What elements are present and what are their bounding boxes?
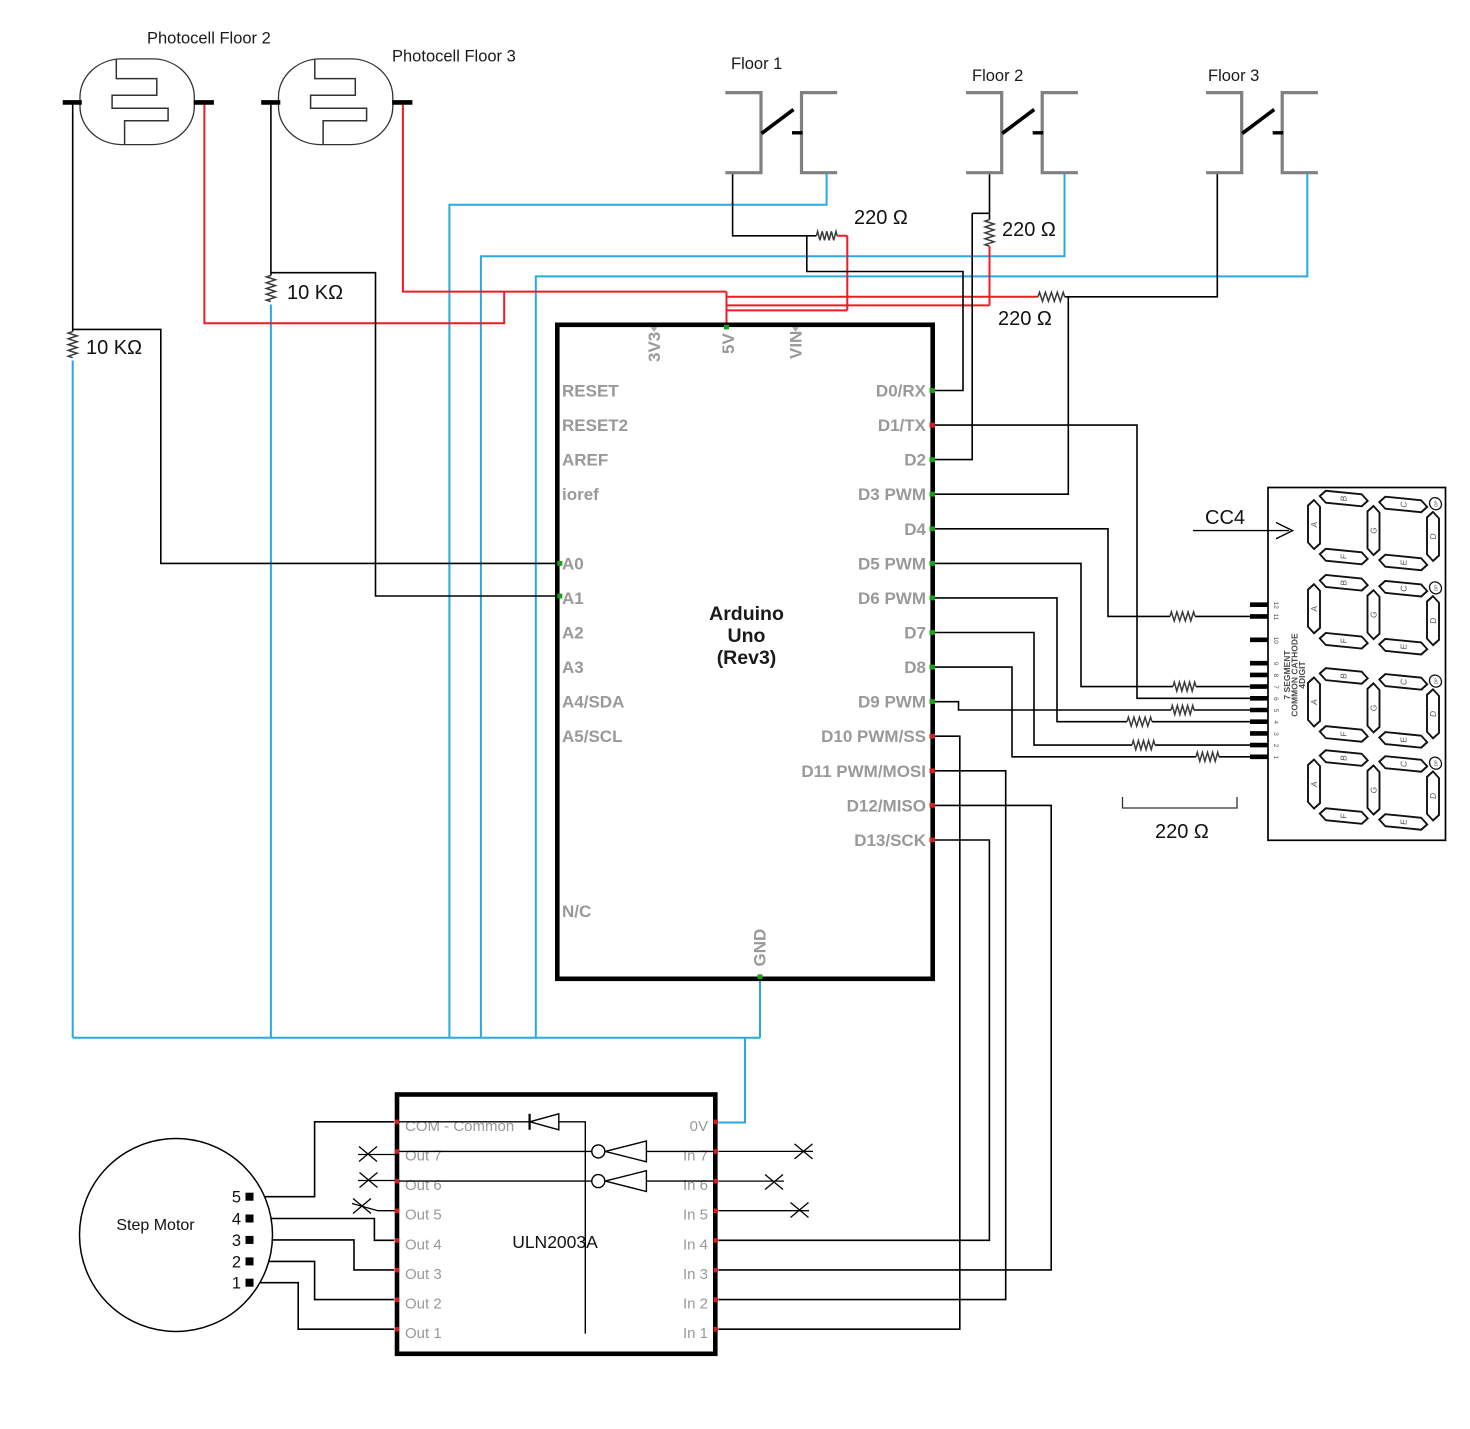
pin A2 bbox=[562, 624, 584, 643]
svg-text:(Rev3): (Rev3) bbox=[717, 647, 777, 669]
svg-text:Floor 1: Floor 1 bbox=[731, 55, 782, 73]
svg-text:Photocell Floor 2: Photocell Floor 2 bbox=[147, 30, 271, 48]
svg-text:RESET: RESET bbox=[562, 382, 619, 401]
display pin 2 stub bbox=[1250, 744, 1279, 748]
pin ioref bbox=[562, 485, 599, 504]
diode COM suppression inside ULN bbox=[399, 1114, 585, 1334]
display pin 4 stub bbox=[1250, 720, 1279, 724]
svg-text:4: 4 bbox=[1272, 720, 1279, 724]
no-connect stub Out6 bbox=[358, 1173, 395, 1188]
display pin 7 stub bbox=[1250, 685, 1279, 689]
pin D0/RX bbox=[876, 382, 935, 401]
pin A5/SCL bbox=[562, 727, 622, 746]
svg-text:4: 4 bbox=[232, 1211, 241, 1229]
svg-text:A3: A3 bbox=[562, 658, 584, 677]
wire: Arduino D7 to display pin 2 resistor bbox=[933, 633, 1250, 746]
wire: Arduino GND pin drop bbox=[759, 981, 761, 1038]
pin 0V bbox=[690, 1118, 718, 1135]
wire: Floor2 node to Arduino D2 bbox=[933, 213, 990, 459]
svg-text:CC4: CC4 bbox=[1205, 507, 1245, 529]
pin A0 bbox=[557, 554, 583, 573]
resistor 10Kohm photocell floor2 bbox=[68, 332, 77, 358]
svg-text:COM - Common: COM - Common bbox=[405, 1118, 514, 1135]
wire: photocell floor2 left terminal down to 10K bbox=[72, 105, 74, 332]
pin A1 bbox=[557, 589, 583, 608]
wire: Floor2 switch right to GND bus bbox=[481, 173, 1065, 1038]
svg-text:10 KΩ: 10 KΩ bbox=[86, 337, 142, 359]
pin D3 PWM bbox=[858, 485, 935, 504]
svg-text:220 Ω: 220 Ω bbox=[854, 207, 908, 229]
display digit 4 bbox=[1308, 744, 1442, 831]
svg-text:Uno: Uno bbox=[728, 625, 766, 647]
svg-text:220 Ω: 220 Ω bbox=[1002, 219, 1056, 241]
wire: Floor2 switch left leg to 220ohm bbox=[989, 173, 991, 220]
svg-text:RESET2: RESET2 bbox=[562, 416, 628, 435]
pin D6 PWM bbox=[858, 589, 935, 608]
svg-text:220 Ω: 220 Ω bbox=[1155, 821, 1209, 843]
pin Out 1 bbox=[395, 1325, 442, 1342]
pin D5 PWM bbox=[858, 554, 935, 573]
wire: 5V branch to Floor1 220ohm resistor bbox=[727, 236, 848, 311]
wire: Arduino D13 to ULN In4 bbox=[719, 840, 990, 1240]
pin VIN bbox=[787, 327, 806, 359]
switch "Floor 1" pushbutton bbox=[725, 55, 837, 174]
inverter buffer In7->Out7 inside ULN bbox=[399, 1141, 714, 1162]
pin D12/MISO bbox=[847, 796, 935, 815]
svg-text:D11 PWM/MOSI: D11 PWM/MOSI bbox=[801, 762, 926, 781]
wire: photocell floor2 lower leg to GND bus bbox=[72, 361, 74, 1038]
resistor 220ohm to display pin4 bbox=[1127, 717, 1152, 726]
svg-text:In 2: In 2 bbox=[683, 1296, 708, 1313]
wire: Arduino D4 to display pin 11 resistor bbox=[933, 529, 1250, 617]
pin In 7 bbox=[683, 1147, 718, 1164]
7 segment 4 digit display box bbox=[1268, 488, 1446, 841]
wire: GND bus horizontal bbox=[73, 1037, 760, 1039]
svg-text:A2: A2 bbox=[562, 624, 584, 643]
pin D7 bbox=[904, 624, 935, 643]
resistor 220ohm to display pin1 bbox=[1196, 752, 1219, 761]
svg-text:In 7: In 7 bbox=[683, 1147, 708, 1164]
svg-text:Out 1: Out 1 bbox=[405, 1325, 442, 1342]
svg-text:1: 1 bbox=[1272, 755, 1279, 759]
svg-text:5: 5 bbox=[232, 1189, 241, 1207]
no-connect stub Out5 bbox=[352, 1199, 395, 1214]
svg-text:D6 PWM: D6 PWM bbox=[858, 589, 926, 608]
svg-text:In 6: In 6 bbox=[683, 1177, 708, 1194]
svg-text:AREF: AREF bbox=[562, 451, 608, 470]
wire: step motor pin3 to ULN Out3 bbox=[254, 1240, 395, 1270]
pin AREF bbox=[562, 451, 608, 470]
photocell LDR "Photocell Floor 3" bbox=[261, 48, 516, 145]
svg-text:D13/SCK: D13/SCK bbox=[854, 831, 927, 850]
svg-text:10: 10 bbox=[1272, 637, 1279, 645]
resistor 220ohm to display pin5 bbox=[1171, 706, 1194, 715]
Arduino Uno (Rev3) main board U1 bbox=[557, 325, 932, 979]
ULN2003A driver U2 box bbox=[397, 1095, 715, 1354]
display pin 8 stub bbox=[1250, 674, 1279, 678]
wire: Floor1 node to Arduino D0/RX bbox=[807, 236, 963, 391]
wire: photocell floor3 lower leg to GND bus bbox=[270, 305, 272, 1038]
display digit 1 bbox=[1308, 485, 1442, 572]
pin D2 bbox=[904, 451, 935, 470]
svg-text:ioref: ioref bbox=[562, 485, 599, 504]
display pin 1 stub bbox=[1250, 755, 1279, 759]
svg-text:In 4: In 4 bbox=[683, 1236, 708, 1253]
pin Out 4 bbox=[395, 1236, 442, 1253]
svg-text:D2: D2 bbox=[904, 451, 926, 470]
pin A3 bbox=[562, 658, 584, 677]
pin D8 bbox=[904, 658, 935, 677]
pin In 4 bbox=[683, 1236, 718, 1253]
wire: photocell floor2 right terminal to 5V bbox=[204, 105, 504, 324]
svg-text:D4: D4 bbox=[904, 520, 926, 539]
svg-text:2: 2 bbox=[1272, 744, 1279, 748]
svg-text:D7: D7 bbox=[904, 624, 926, 643]
pin Out 5 bbox=[395, 1207, 442, 1224]
svg-text:In 1: In 1 bbox=[683, 1325, 708, 1342]
svg-text:Photocell Floor 3: Photocell Floor 3 bbox=[392, 48, 516, 66]
svg-text:7: 7 bbox=[1272, 685, 1279, 689]
wire: Floor3 switch left leg to 220ohm bbox=[1065, 173, 1218, 297]
wire: 5V branch to Floor2 220ohm resistor bbox=[727, 246, 990, 305]
resistor 220ohm Floor3 bbox=[1038, 292, 1065, 301]
wire: photocell floor3 right terminal to 5V junction bbox=[403, 105, 727, 292]
display pin 12 stub bbox=[1250, 602, 1279, 610]
display pin 5 stub bbox=[1250, 709, 1279, 713]
step motor M1 bbox=[80, 1139, 273, 1332]
svg-text:Out 6: Out 6 bbox=[405, 1177, 442, 1194]
resistor 220ohm to display pin11 bbox=[1170, 612, 1195, 621]
svg-text:9: 9 bbox=[1272, 662, 1279, 666]
svg-text:3: 3 bbox=[1272, 732, 1279, 736]
svg-text:0V: 0V bbox=[690, 1118, 708, 1135]
svg-text:5V: 5V bbox=[719, 333, 738, 354]
svg-text:Out 3: Out 3 bbox=[405, 1266, 442, 1283]
wire: Arduino D11 to ULN In2 bbox=[719, 771, 1006, 1300]
pin Out 3 bbox=[395, 1266, 442, 1283]
svg-text:Step Motor: Step Motor bbox=[116, 1217, 195, 1234]
wire: step motor pin2 to ULN Out2 bbox=[254, 1261, 395, 1299]
wire: Floor1 switch right to GND bus bbox=[449, 173, 826, 1038]
pin GND bbox=[751, 929, 770, 979]
wire: Arduino D6 to display pin 4 resistor bbox=[933, 598, 1250, 722]
resistor 220ohm to display pin2 bbox=[1132, 741, 1155, 750]
pin 5V bbox=[719, 325, 738, 354]
svg-text:11: 11 bbox=[1272, 614, 1279, 621]
svg-text:GND: GND bbox=[751, 929, 770, 967]
switch "Floor 2" pushbutton bbox=[966, 67, 1078, 174]
pin Out 2 bbox=[395, 1296, 442, 1313]
wire: GND bus to ULN2003A 0V pin bbox=[719, 1038, 746, 1123]
display pin 9 stub bbox=[1250, 662, 1279, 666]
switch "Floor 3" pushbutton bbox=[1206, 67, 1318, 174]
wire: node A0 from 10K junction to Arduino A0 bbox=[73, 329, 558, 563]
wire: photocell floor3 left terminal down to 10K bbox=[270, 105, 272, 276]
svg-text:VIN: VIN bbox=[787, 331, 806, 359]
node CC4 label with arrow bbox=[1193, 507, 1293, 539]
display digit 2 bbox=[1308, 569, 1442, 656]
svg-text:Out 4: Out 4 bbox=[405, 1236, 442, 1253]
pin In 3 bbox=[683, 1266, 718, 1283]
svg-text:D9 PWM: D9 PWM bbox=[858, 693, 926, 712]
wire: Floor1 switch left leg to 220ohm bbox=[733, 173, 817, 236]
pin COM - Common bbox=[395, 1118, 515, 1135]
value label 220ohm display group with bracket bbox=[1123, 797, 1238, 808]
svg-text:Arduino: Arduino bbox=[709, 603, 784, 625]
svg-text:10 KΩ: 10 KΩ bbox=[287, 282, 343, 304]
svg-text:D5 PWM: D5 PWM bbox=[858, 554, 926, 573]
wire: 5V junction drop to Arduino 5V pin bbox=[726, 292, 728, 323]
svg-text:A4/SDA: A4/SDA bbox=[562, 693, 624, 712]
pin D11 PWM/MOSI bbox=[801, 762, 935, 781]
svg-text:D0/RX: D0/RX bbox=[876, 382, 927, 401]
pin In 1 bbox=[683, 1325, 718, 1342]
wire: Arduino D9 to display pin 5 resistor bbox=[933, 702, 1250, 710]
svg-text:4DIGIT: 4DIGIT bbox=[1297, 661, 1307, 689]
wire: step motor pin1 to ULN Out1 bbox=[254, 1283, 395, 1330]
no-connect stub Out7 bbox=[358, 1147, 395, 1162]
svg-text:D8: D8 bbox=[904, 658, 926, 677]
pin RESET2 bbox=[562, 416, 628, 435]
svg-text:5: 5 bbox=[1272, 709, 1279, 713]
svg-text:D10 PWM/SS: D10 PWM/SS bbox=[821, 727, 926, 746]
wire: node A1 from 10K junction to Arduino A1 bbox=[271, 273, 558, 596]
wire: Floor3 node to Arduino D3 bbox=[933, 297, 1068, 494]
svg-text:Out 5: Out 5 bbox=[405, 1207, 442, 1224]
resistor 10Kohm photocell floor3 bbox=[266, 276, 275, 302]
display pin 11 stub bbox=[1250, 614, 1279, 621]
svg-text:6: 6 bbox=[1272, 697, 1279, 701]
display digit 3 bbox=[1308, 662, 1442, 749]
svg-text:In 3: In 3 bbox=[683, 1266, 708, 1283]
pin D1/TX bbox=[878, 416, 935, 435]
wire: step motor pin4 to ULN Out4 bbox=[254, 1219, 395, 1241]
pin D13/SCK bbox=[854, 831, 935, 850]
photocell LDR "Photocell Floor 2" bbox=[63, 30, 271, 145]
svg-text:220 Ω: 220 Ω bbox=[998, 308, 1052, 330]
svg-text:1: 1 bbox=[232, 1275, 241, 1293]
pin In 6 bbox=[683, 1177, 718, 1194]
svg-text:A5/SCL: A5/SCL bbox=[562, 727, 622, 746]
svg-text:A0: A0 bbox=[562, 554, 584, 573]
pin A4/SDA bbox=[562, 693, 624, 712]
wire: 5V branch to Floor3 220ohm resistor bbox=[727, 296, 1039, 298]
no-connect stub In6 bbox=[719, 1175, 785, 1190]
svg-text:N/C: N/C bbox=[562, 902, 591, 921]
pin RESET bbox=[562, 382, 619, 401]
svg-text:D12/MISO: D12/MISO bbox=[847, 796, 926, 815]
resistor 220ohm to display pin7 bbox=[1173, 682, 1196, 691]
display pin 3 stub bbox=[1250, 732, 1279, 736]
pin In 2 bbox=[683, 1296, 718, 1313]
svg-text:D1/TX: D1/TX bbox=[878, 416, 927, 435]
wire: Arduino D10 to ULN In1 bbox=[719, 736, 960, 1329]
pin D9 PWM bbox=[858, 693, 935, 712]
pin Out 6 bbox=[395, 1177, 442, 1194]
svg-text:D3 PWM: D3 PWM bbox=[858, 485, 926, 504]
wire: Arduino D1/TX to display pin 6 bbox=[933, 425, 1250, 698]
no-connect stub In7 bbox=[719, 1144, 814, 1159]
svg-text:8: 8 bbox=[1272, 674, 1279, 678]
wire: Arduino D8 to display pin 1 resistor bbox=[933, 667, 1250, 757]
display pin 10 stub bbox=[1250, 637, 1279, 645]
svg-text:Out 7: Out 7 bbox=[405, 1147, 442, 1164]
resistor 220ohm Floor2 bbox=[985, 220, 994, 247]
no-connect stub In5 bbox=[719, 1203, 810, 1218]
svg-text:3V3: 3V3 bbox=[645, 332, 664, 362]
inverter buffer In6->Out6 inside ULN bbox=[399, 1171, 714, 1192]
pin 3V3 bbox=[645, 327, 664, 362]
svg-text:12: 12 bbox=[1272, 602, 1279, 610]
pin Out 7 bbox=[395, 1147, 442, 1164]
svg-text:Floor 3: Floor 3 bbox=[1208, 67, 1259, 85]
wire: step motor pin5 to ULN COM bbox=[254, 1122, 395, 1197]
wire: Floor3 switch right to GND bus bbox=[536, 173, 1308, 1038]
pin In 5 bbox=[683, 1207, 718, 1224]
pin D4 bbox=[904, 520, 935, 539]
svg-text:2: 2 bbox=[232, 1253, 241, 1271]
svg-text:Floor 2: Floor 2 bbox=[972, 67, 1023, 85]
svg-text:In 5: In 5 bbox=[683, 1207, 708, 1224]
svg-text:3: 3 bbox=[232, 1232, 241, 1250]
resistor 220ohm Floor1 bbox=[816, 231, 837, 240]
wire: Arduino D5 to display pin 7 resistor bbox=[933, 563, 1250, 686]
svg-text:A1: A1 bbox=[562, 589, 584, 608]
svg-text:Out 2: Out 2 bbox=[405, 1296, 442, 1313]
wire: Arduino D12 to ULN In3 bbox=[719, 805, 1052, 1270]
display pin 6 stub bbox=[1250, 697, 1279, 701]
pin D10 PWM/SS bbox=[821, 727, 935, 746]
